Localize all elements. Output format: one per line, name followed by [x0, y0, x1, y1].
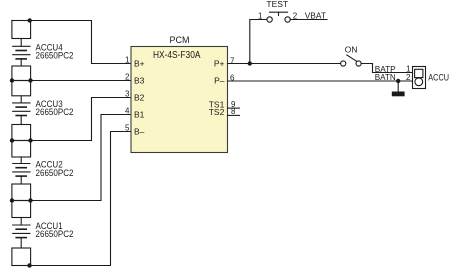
net label VBAT [305, 10, 326, 20]
net label BATP [375, 64, 396, 74]
label ACCU4 26650PC2 [36, 42, 74, 60]
pin number 3 [125, 90, 130, 99]
svg-text:BATN: BATN [375, 72, 396, 82]
battery ACCU2 [12, 141, 31, 201]
label ACCU3 26650PC2 [36, 99, 74, 117]
node tap2 left [10, 138, 14, 142]
pin number 1 of connector [406, 65, 411, 74]
node tap2 right [28, 138, 32, 142]
label ACCU [428, 73, 449, 83]
wire ON to connector BATP [361, 64, 412, 73]
label ACCU2 26650PC2 [36, 160, 74, 178]
label ACCU1 26650PC2 [36, 221, 74, 239]
wire tap3 B1 [12, 115, 131, 201]
pin TS1 stub [228, 107, 240, 109]
svg-text:26650PC2: 26650PC2 [36, 107, 74, 117]
pin number 1 of TEST [258, 12, 263, 21]
svg-text:P+: P+ [214, 59, 225, 69]
node tap1 right [28, 78, 32, 82]
pin name B2 [134, 93, 145, 103]
node BATN ground junction [396, 79, 400, 83]
battery ACCU3 [12, 81, 31, 141]
svg-text:26650PC2: 26650PC2 [36, 168, 74, 178]
pin number 2 of connector [406, 73, 411, 82]
pin name B+ [134, 59, 145, 69]
svg-text:P–: P– [214, 76, 225, 86]
pin number 1 [125, 56, 130, 65]
svg-text:B1: B1 [134, 110, 145, 120]
node tap3 right [28, 198, 32, 202]
wire stack top to B+ [12, 21, 131, 64]
label HX-4S-F30A [153, 50, 201, 61]
battery ACCU4 [12, 21, 31, 81]
svg-text:1: 1 [406, 65, 411, 74]
svg-text:3: 3 [125, 90, 130, 99]
label TEST [266, 0, 288, 9]
pin name TS1 [209, 100, 225, 110]
wire P+ to switch ON [228, 63, 341, 65]
wire down to ground [397, 81, 399, 92]
node tap3 left [10, 198, 14, 202]
svg-text:B3: B3 [134, 76, 145, 86]
pin name B1 [134, 110, 145, 120]
svg-text:2: 2 [125, 73, 130, 82]
node tap1 left [10, 78, 14, 82]
pin TS2 stub [228, 114, 240, 116]
node P+ test junction [248, 61, 252, 65]
svg-text:B–: B– [134, 127, 145, 137]
svg-text:26650PC2: 26650PC2 [36, 229, 74, 239]
switch ON [341, 55, 362, 66]
label PCM [170, 35, 190, 45]
svg-text:26650PC2: 26650PC2 [36, 51, 74, 61]
node stack bottom junction [27, 263, 31, 267]
pin name B- [134, 127, 145, 137]
pin number 8 [231, 107, 236, 116]
svg-text:TEST: TEST [266, 0, 288, 9]
svg-text:2: 2 [406, 73, 411, 82]
ground [392, 92, 405, 97]
svg-text:B+: B+ [134, 59, 145, 69]
wire tap1 B3 [12, 80, 131, 82]
label ON [345, 45, 358, 55]
IC U1 PCM HX-4S-F30A [131, 47, 228, 153]
wire P- to connector BATN [228, 80, 413, 82]
pin name TS2 [209, 107, 225, 117]
node stack top junction [28, 18, 32, 22]
svg-text:ACCU: ACCU [428, 73, 449, 83]
svg-text:TS2: TS2 [209, 107, 225, 117]
svg-text:ON: ON [345, 45, 358, 55]
svg-text:1: 1 [258, 12, 263, 21]
wire stack bottom to B- [12, 132, 131, 266]
pin number 2 of TEST [293, 12, 298, 21]
connector X1 ACCU [413, 67, 426, 89]
pin number 9 [231, 100, 236, 109]
battery ACCU1 [12, 201, 31, 266]
pin name P- [214, 76, 225, 86]
svg-text:VBAT: VBAT [305, 10, 326, 20]
pin number 2 [125, 73, 130, 82]
wire tap2 B2 [12, 98, 131, 141]
pin number 6 [230, 73, 235, 82]
svg-text:B2: B2 [134, 93, 145, 103]
pushbutton TEST [267, 12, 290, 22]
pin number 5 [125, 124, 130, 133]
pin name B3 [134, 76, 145, 86]
svg-text:1: 1 [125, 56, 130, 65]
pin name P+ [214, 59, 225, 69]
svg-text:5: 5 [125, 124, 130, 133]
pin number 7 [230, 56, 235, 65]
svg-text:4: 4 [125, 107, 130, 116]
wire junction up to TEST [250, 20, 267, 64]
svg-text:PCM: PCM [170, 35, 190, 45]
pin number 4 [125, 107, 130, 116]
net label BATN [375, 72, 396, 82]
wire VBAT stub [290, 19, 327, 21]
svg-text:HX-4S-F30A: HX-4S-F30A [153, 50, 201, 61]
